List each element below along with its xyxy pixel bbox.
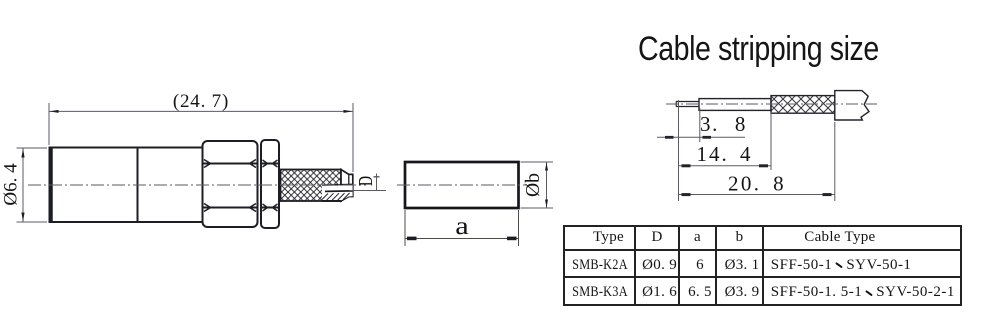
dimension text D (rotated) — [355, 176, 377, 186]
svg-text:Ø6. 4: Ø6. 4 — [1, 163, 22, 206]
dimension text 20.8 — [728, 172, 786, 196]
slot lower hatch — [322, 193, 350, 200]
body divider line — [137, 148, 139, 222]
dimension a extension lines — [405, 210, 519, 246]
dimension line Øb — [545, 162, 548, 208]
centerline of connector — [28, 184, 366, 186]
dimension text a — [455, 213, 469, 240]
dimension line Ø6.4 — [21, 148, 24, 222]
svg-text:a: a — [455, 213, 469, 240]
dimension text 3.8 — [700, 112, 747, 136]
dimension Øb extension lines — [521, 162, 554, 208]
dimension line a — [405, 237, 519, 241]
title: Cable stripping size — [638, 30, 890, 69]
cable center conductor — [676, 102, 699, 107]
cable jacket with break end — [835, 91, 869, 120]
dimension line (24.7) — [49, 110, 353, 113]
svg-text:3. 8: 3. 8 — [700, 112, 747, 136]
svg-text:(24. 7): (24. 7) — [173, 91, 229, 112]
dimension line 3.8 (arrows outside) — [657, 136, 745, 139]
svg-text:D: D — [355, 176, 377, 186]
cylinder centerline — [397, 184, 527, 186]
svg-text:20. 8: 20. 8 — [728, 172, 786, 196]
dimension text 14.4 — [697, 142, 753, 166]
tip slot (contact slit) — [322, 184, 353, 201]
extension line braid/jacket — [834, 122, 836, 201]
cylinder (cable entry bushing) — [405, 162, 519, 208]
knurled crimp ferrule — [281, 170, 342, 202]
ferrule tip with chamfer — [341, 170, 353, 202]
hex washer (small) — [261, 140, 279, 228]
dimension text (24.7) — [173, 91, 229, 112]
extension line conductor/dielectric — [699, 108, 701, 142]
dimension Ø6.4 extension lines — [17, 148, 48, 222]
dimension line 20.8 — [679, 193, 835, 196]
extension line dielectric/braid — [770, 112, 772, 170]
cable braid shield — [771, 96, 835, 114]
dimension line 14.4 — [679, 164, 772, 167]
dimension (24.7) extension line left — [48, 103, 50, 145]
dimension D tick — [374, 174, 380, 191]
specification table — [563, 225, 962, 306]
cable dim shared extension line (tip) — [678, 100, 680, 201]
dimension text Øb (rotated) — [522, 173, 544, 197]
svg-text:Øb: Øb — [522, 173, 544, 197]
connector body barrel — [50, 148, 203, 223]
dimension text Ø6.4 (rotated) — [1, 163, 22, 206]
cable dielectric — [699, 99, 771, 111]
svg-text:14. 4: 14. 4 — [697, 142, 753, 166]
cable centerline — [666, 103, 877, 105]
hex nut (large) — [203, 141, 258, 227]
dimension (24.7) extension line right — [352, 103, 354, 172]
dimension D extension line — [349, 190, 386, 192]
